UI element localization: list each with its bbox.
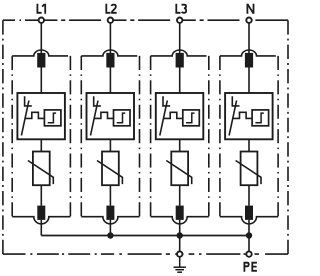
junction node channel 3 / bus [177,232,183,238]
junction node channel 4 / bus [246,232,252,238]
protection-path enclosure box (channel 1, dashed) [11,56,13,217]
disconnector dome arc (channel 1 top) [12,50,68,56]
spark gap U1 fixed electrode (L-shape) [25,96,32,106]
disconnector dome arc (channel 2 bottom) [81,217,139,224]
label L1 [37,4,45,14]
terminal N [246,18,251,23]
disconnector dome arc (channel 1 bottom) [12,217,70,224]
wire bus to PE terminal [248,236,250,252]
wire disconnector F4b to PE bus [248,220,250,236]
triggered spark gap U2 enclosure box [87,93,135,139]
disconnector dome arc (channel 3 bottom) [151,217,209,224]
terminal L3 [177,18,182,23]
wire bus to earth terminal [179,236,181,252]
label L2 [106,4,116,14]
device outer enclosure bottom edge (dash-dot) [3,253,288,255]
wire L1 terminal to disconnector F1a [40,23,42,53]
thermal disconnector F4a fuse element (black) [245,53,253,68]
spark gap U1 slanted electrode [21,101,29,136]
wire N terminal to disconnector F4a [248,23,250,53]
varistor RV1 body [33,152,50,186]
PE bus wire (connects all four paths) [41,235,249,237]
ground (earth) symbol [174,257,186,272]
wire disconnector F3b to PE bus [179,220,181,236]
wire L2 terminal to disconnector F2a [109,23,111,53]
triggered spark gap U1 enclosure box [17,93,65,139]
trigger unit step symbol (U3) [186,113,194,123]
varistor RV2 body [102,152,119,186]
trigger unit step symbol (U1) [48,113,56,123]
wire varistor RV3 to disconnector F3b [179,185,181,205]
disconnector dome arc (channel 2 top) [81,50,137,56]
thermal disconnector F3a fuse element (black) [176,53,184,68]
wire varistor RV4 to disconnector F4b [248,185,250,205]
junction node channel 2 / bus [107,232,113,238]
thermal disconnector F4b fuse element (black) [245,206,253,220]
varistor RV2 diagonal stroke [97,161,122,185]
label PE [244,262,257,272]
trigger unit box (U4) [252,110,269,126]
wire L3 terminal to disconnector F3a [179,23,181,53]
wire disconnector F1a to spark gap U1 [40,68,42,94]
wire spark gap U4 to varistor RV4 [248,139,250,151]
thermal disconnector F3b fuse element (black) [176,206,184,220]
terminal L2 [108,18,113,23]
varistor RV1 diagonal stroke [28,161,53,185]
wire disconnector F2b to PE bus [109,220,111,236]
trigger unit step symbol (U4) [255,113,263,123]
disconnector dome arc (channel 3 top) [151,50,207,56]
triggered spark gap U4 enclosure box [225,93,273,139]
wire disconnector F1b to PE bus [40,220,42,236]
wire varistor RV2 to disconnector F2b [109,185,111,205]
trigger unit box (U1) [44,110,61,126]
device outer enclosure left edge (dash-dot) [2,20,4,254]
thermal disconnector F2a fuse element (black) [106,53,114,68]
varistor RV4 body [241,152,258,186]
spark gap U3 trigger pulse line [164,112,183,118]
disconnector dome arc (channel 4 bottom) [220,217,278,224]
earth terminal (circle on enclosure) [177,251,182,256]
label L3 [176,4,186,14]
trigger unit box (U3) [183,110,200,126]
spark gap U2 fixed electrode (L-shape) [94,96,101,106]
spark gap U1 trigger pulse line [25,112,44,118]
trigger unit step symbol (U2) [117,113,125,123]
varistor RV3 body [171,152,188,186]
spark gap U2 trigger pulse line [94,112,113,118]
wire varistor RV1 to disconnector F1b [40,185,42,205]
device outer enclosure right edge (dash-dot) [287,20,289,254]
wire spark gap U2 to varistor RV2 [109,139,111,151]
protection-path enclosure box (channel 4, dashed) [219,56,221,217]
spark gap U4 fixed electrode (L-shape) [232,96,239,106]
spark gap U2 slanted electrode [91,101,99,136]
thermal disconnector F1b fuse element (black) [37,206,45,220]
wire disconnector F3a to spark gap U3 [179,68,181,94]
PE terminal (circle on enclosure) [246,251,251,256]
wire spark gap U1 to varistor RV1 [40,139,42,151]
disconnector dome arc (channel 4 top) [220,50,276,56]
wire spark gap U3 to varistor RV3 [179,139,181,151]
terminal L1 [39,18,44,23]
protection-path enclosure box (channel 3, dashed) [150,56,152,217]
spark gap U4 slanted electrode [229,101,237,136]
varistor RV4 diagonal stroke [236,161,261,185]
varistor RV3 diagonal stroke [166,161,191,185]
device outer enclosure top edge (dash-dot) [3,19,288,21]
spark gap U3 fixed electrode (L-shape) [163,96,170,106]
wire disconnector F2a to spark gap U2 [109,68,111,94]
thermal disconnector F1a fuse element (black) [37,53,45,68]
thermal disconnector F2b fuse element (black) [106,206,114,220]
spark gap U4 trigger pulse line [233,112,252,118]
triggered spark gap U3 enclosure box [156,93,204,139]
protection-path enclosure box (channel 2, dashed) [80,56,82,217]
label N [247,4,253,14]
wire disconnector F4a to spark gap U4 [248,68,250,94]
spark gap U3 slanted electrode [160,101,168,136]
trigger unit box (U2) [114,110,131,126]
